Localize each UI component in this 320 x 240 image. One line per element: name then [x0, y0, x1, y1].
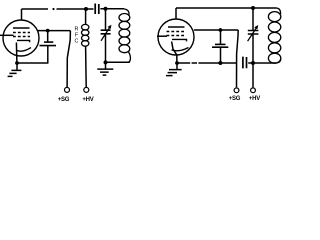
wire: V1 screen-grid feed — [38, 30, 71, 32]
wire: right cathode bus segment 3 — [198, 62, 237, 64]
svg-text:+HV: +HV — [249, 96, 260, 102]
V1 cathode arc — [16, 48, 31, 52]
svg-text:+SG: +SG — [58, 97, 70, 103]
variable capacitor VC2 arrow — [248, 27, 257, 41]
node: junction screen wire / bypass cap — [46, 29, 50, 33]
V1 cathode lead — [15, 43, 18, 64]
capacitor C1 (screen bypass) plates — [40, 45, 57, 47]
V2 plate lead riser — [175, 8, 177, 19]
tube V1 (left pentode) envelope — [3, 20, 39, 56]
capacitor C4 (plate bypass) plates — [243, 57, 247, 69]
V1 grid 3 (dashed) — [13, 32, 30, 34]
wire: right cathode bus segment 2 — [192, 62, 197, 64]
inductor L1 bottom hook — [128, 52, 131, 63]
terminal +SG (right) — [234, 88, 239, 93]
wire: +HV terminal lead (right) — [252, 63, 254, 87]
V2 cathode lead — [172, 42, 177, 64]
terminal +HV (left) — [84, 87, 89, 92]
wire: RFC to +HV terminal — [85, 46, 88, 87]
V2 cathode arc — [172, 48, 189, 51]
node: junction cathode bus / bypass cap C3 — [218, 61, 222, 65]
V2 grid 3 (dashed) — [167, 31, 187, 33]
wire: +SG drop line (right) — [237, 30, 239, 87]
node: ink dot artifact in top bus — [52, 8, 54, 10]
V2 grid 2 (dashed) — [167, 35, 187, 37]
wire: V2 screen-grid feed — [194, 29, 238, 31]
variable capacitor VC1 plates — [101, 30, 111, 34]
V1 plate lead riser — [21, 9, 23, 21]
V1 plate electrode — [13, 27, 30, 29]
wire: bypass cap lower lead — [47, 46, 49, 64]
node: junction screen wire / bypass cap C3 — [219, 28, 223, 32]
svg-text:+SG: +SG — [229, 96, 241, 102]
inductor L1 top hook — [124, 9, 129, 15]
wire: tank bottom — [106, 61, 130, 63]
wire: V1 control-grid input lead — [0, 34, 14, 36]
inductor RFC lead from plate bus — [85, 9, 87, 25]
V1 grid 1 bar — [17, 40, 30, 42]
inductor RFC winding — [82, 24, 89, 30]
inductor L2 bottom hook — [276, 59, 281, 63]
variable capacitor VC1 upper lead — [105, 9, 107, 30]
variable capacitor VC1 lower lead — [105, 34, 107, 63]
node: cathode-ground junction — [15, 61, 19, 65]
wire: V2 control-grid input stub — [157, 35, 167, 37]
V1 grid 2 (dashed) — [13, 36, 30, 38]
wire: V1 plate top bus segment 1 — [22, 8, 49, 10]
wire: right cathode bus segment 1 — [177, 62, 190, 64]
node: junction top bus / variable capacitor VC2 — [251, 6, 255, 10]
terminal +SG (left) — [65, 87, 70, 92]
node: tank bottom junction — [104, 60, 108, 64]
variable capacitor VC2 lower lead — [252, 34, 254, 63]
node: junction bottom wire / VC2 / +HV — [251, 61, 255, 65]
node: junction top bus / variable capacitor — [104, 7, 108, 11]
ground (right tube) — [176, 63, 178, 69]
inductor L2 winding — [268, 12, 280, 22]
variable capacitor VC2 plates — [248, 31, 259, 35]
ground (tank) — [105, 62, 107, 69]
wire: top bus segment 2 — [57, 8, 94, 10]
wire: +SG drop line — [67, 31, 70, 88]
node: junction of plate bus and RFC — [84, 7, 88, 11]
wire: bypass cap C3 lower lead — [220, 47, 222, 63]
svg-text:+HV: +HV — [82, 97, 93, 103]
wire: top bus rounded corner into coil — [277, 8, 281, 14]
tube V2 (right pentode) envelope — [158, 19, 194, 55]
ground (left tube) — [16, 63, 18, 70]
V2 grid 1 bar — [172, 39, 187, 41]
wire: bottom wire cap C4 to +HV node — [248, 62, 276, 64]
svg-text:C: C — [75, 39, 79, 45]
V2 plate electrode — [168, 26, 185, 28]
wire: top bus segment 3 — [100, 8, 124, 10]
inductor L1 winding — [119, 14, 130, 22]
capacitor C2 (blocking) plates — [95, 4, 99, 15]
wire: cathode bus to bypass cap — [17, 62, 48, 64]
wire: V2 plate top bus — [176, 7, 277, 9]
variable capacitor VC2 upper lead — [252, 8, 254, 30]
node: V2 cathode-ground junction — [175, 61, 179, 65]
capacitor C3 (screen bypass) plates — [215, 43, 226, 45]
wire: bypass cap upper lead — [47, 31, 49, 42]
wire: bypass cap C3 upper lead — [220, 30, 222, 44]
terminal +HV (right) — [251, 88, 256, 93]
variable capacitor VC1 arrow — [101, 27, 110, 41]
